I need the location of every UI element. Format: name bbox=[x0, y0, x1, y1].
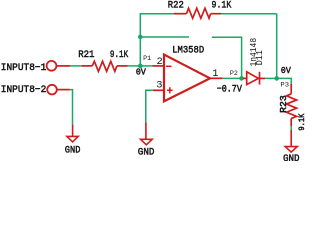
label 0V at node P1 bbox=[136, 66, 146, 77]
wire: node P3 to R23 (green) bbox=[277, 78, 292, 84]
port INPUT8-2 pin circle bbox=[47, 85, 57, 95]
node P1 junction dot bbox=[138, 64, 143, 69]
label P2 bbox=[230, 70, 238, 77]
svg-text:P2: P2 bbox=[230, 70, 238, 77]
wire: mid horizontal feedback segment 2 with drop to output node bbox=[212, 37, 242, 78]
wire: INPUT8-1 pin lead (red) bbox=[56, 65, 70, 67]
wire: INPUT8-1 to R21 (green) bbox=[70, 65, 81, 67]
label GND left bbox=[65, 145, 81, 157]
wire: output to node P2 (green) bbox=[223, 77, 242, 79]
op-amp plus sign bbox=[167, 87, 173, 93]
ground symbol left (below INPUT8-2) bbox=[67, 124, 78, 142]
label R23 value 9.1K (rotated) bbox=[298, 113, 307, 130]
svg-text:1: 1 bbox=[212, 68, 218, 80]
ground symbol middle (op-amp non-inverting input) bbox=[141, 122, 153, 145]
wire: INPUT8-2 pin lead (red) bbox=[57, 89, 70, 91]
wire: right vertical from top wire down to node P3 bbox=[276, 14, 278, 79]
label R21 name bbox=[78, 49, 94, 61]
svg-text:−0.7V: −0.7V bbox=[217, 84, 243, 96]
resistor R22 bbox=[174, 8, 221, 18]
label GND middle bbox=[138, 147, 155, 159]
svg-text:D11: D11 bbox=[255, 50, 265, 65]
op-amp U1 triangle LM358D bbox=[164, 55, 210, 102]
svg-text:9.1K: 9.1K bbox=[298, 113, 307, 130]
ground symbol right (below R23) bbox=[285, 130, 297, 152]
diode D11 bbox=[243, 72, 265, 85]
junction: feedback tap on left vertical bbox=[138, 35, 143, 40]
wire: INPUT8-2 to left ground (green) bbox=[70, 90, 73, 125]
pin number 2 bbox=[157, 56, 163, 68]
wire: pin 3 to middle ground (green) bbox=[146, 90, 153, 122]
svg-text:R22: R22 bbox=[168, 0, 184, 11]
label R22 value 9.1K bbox=[212, 0, 232, 11]
svg-text:INPUT8−2: INPUT8−2 bbox=[1, 84, 47, 96]
svg-text:INPUT8−1: INPUT8−1 bbox=[1, 62, 47, 74]
svg-text:P3: P3 bbox=[280, 82, 289, 89]
svg-text:GND: GND bbox=[65, 145, 81, 157]
svg-text:GND: GND bbox=[283, 153, 300, 161]
node P3 junction dot bbox=[274, 76, 279, 81]
label R22 name bbox=[168, 0, 184, 11]
svg-text:2: 2 bbox=[157, 56, 163, 68]
label D11 name (rotated) bbox=[255, 50, 265, 65]
wire: top feedback net left segment with left vertical down to node P1 bbox=[140, 14, 174, 66]
label LM358D bbox=[172, 45, 204, 57]
label R21 value 9.1K bbox=[110, 49, 129, 61]
label R23 name (rotated) bbox=[278, 95, 289, 113]
label INPUT8-1 bbox=[1, 62, 47, 74]
op-amp minus sign bbox=[166, 65, 172, 67]
op-amp U1 output pin 1 stub (red) bbox=[210, 77, 223, 79]
wire: diode cathode to node P3 (green) bbox=[265, 77, 277, 79]
label GND right bbox=[283, 153, 300, 165]
wire: top feedback net right segment bbox=[221, 13, 277, 15]
wire: mid horizontal feedback segment 1 bbox=[140, 36, 189, 38]
op-amp U1 pin 3 stub (red) bbox=[153, 89, 164, 91]
resistor R21 bbox=[81, 61, 127, 71]
svg-text:LM358D: LM358D bbox=[172, 45, 204, 57]
svg-text:P1: P1 bbox=[143, 55, 151, 62]
pin number 3 bbox=[156, 80, 162, 92]
label 0V at node P3 bbox=[281, 65, 291, 76]
wire: node P1 to op-amp pin 2 (green) bbox=[140, 65, 152, 67]
svg-text:9.1K: 9.1K bbox=[212, 0, 232, 11]
svg-text:9.1K: 9.1K bbox=[110, 49, 129, 61]
svg-text:3: 3 bbox=[156, 80, 162, 92]
svg-text:GND: GND bbox=[138, 147, 155, 159]
node P2 junction dot bbox=[239, 76, 244, 81]
wire: R23 to right ground (green) bbox=[290, 126, 292, 130]
label P1 bbox=[143, 55, 151, 62]
wire: R21 to node P1 (green) bbox=[128, 65, 141, 67]
label -0.7V bbox=[217, 84, 243, 96]
svg-text:R23: R23 bbox=[278, 95, 289, 113]
pin number 1 bbox=[212, 68, 218, 80]
label P3 bbox=[280, 82, 289, 89]
svg-text:R21: R21 bbox=[78, 49, 94, 61]
svg-text:0V: 0V bbox=[281, 65, 291, 76]
svg-text:0V: 0V bbox=[136, 66, 146, 77]
resistor R23 (vertical) bbox=[287, 84, 297, 126]
port INPUT8-1 pin circle bbox=[47, 61, 57, 71]
op-amp U1 pin 2 stub (red) bbox=[153, 65, 165, 67]
label INPUT8-2 bbox=[1, 84, 47, 96]
label D11 value 1n4148 (rotated) bbox=[249, 38, 259, 67]
